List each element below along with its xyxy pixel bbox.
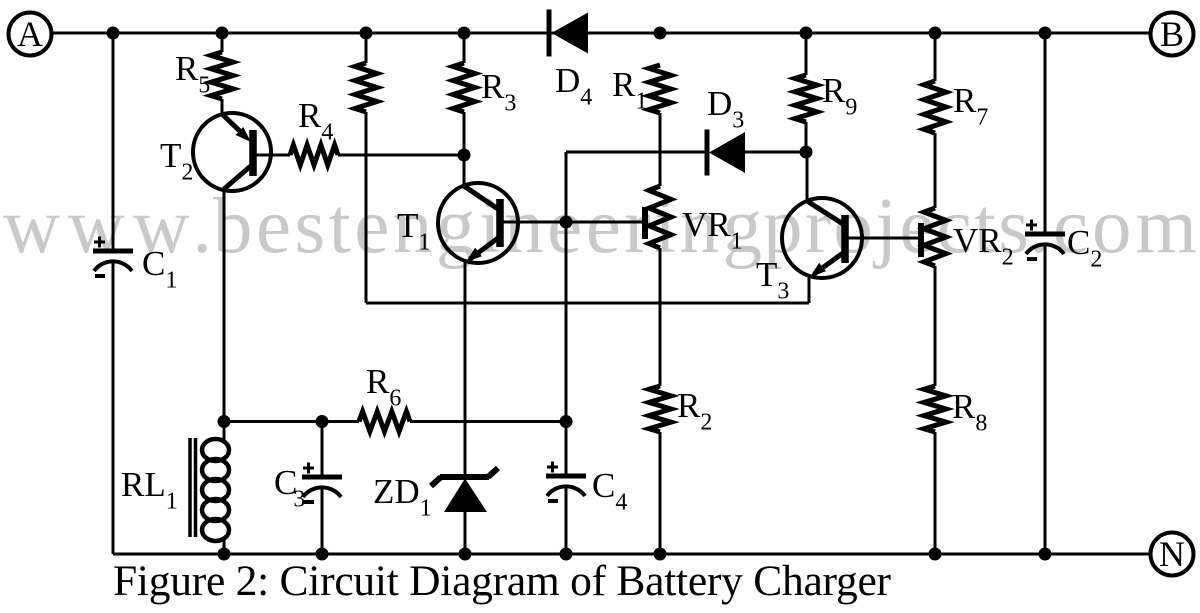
node: bottom rail / R2 <box>654 548 667 561</box>
svg-text:Figure 2: Circuit Diagram of B: Figure 2: Circuit Diagram of Battery Cha… <box>113 557 892 605</box>
resistor R3 <box>453 63 475 112</box>
wire: RL1 node to C3 node <box>224 420 359 423</box>
capacitor C1 <box>93 237 133 277</box>
caption <box>113 557 892 605</box>
label VR2 <box>953 221 1014 271</box>
resistor R2 <box>649 386 671 432</box>
label D4 <box>555 61 592 111</box>
label R3 <box>481 67 516 117</box>
node: D3 / R9 / T3 collector <box>800 146 813 159</box>
label VR1 <box>682 205 743 255</box>
label T2 <box>160 136 193 186</box>
transistor T3 <box>782 198 862 278</box>
label C4 <box>592 466 627 516</box>
label C2 <box>1067 223 1102 273</box>
wire: top rail to R9 <box>805 33 808 75</box>
label D3 <box>707 84 744 134</box>
terminal B <box>1151 13 1194 56</box>
node: bottom rail / RL1 <box>218 548 231 561</box>
wire: T1 base node up-right to D3 <box>566 152 707 222</box>
wire: T3 base to VR2 wiper <box>845 237 921 240</box>
resistor R4 <box>290 145 338 165</box>
node: top rail / feedback resistor <box>360 27 373 40</box>
label R6 <box>366 362 401 412</box>
resistor R1 <box>649 65 671 113</box>
node: top rail / R7 <box>929 27 942 40</box>
node: top rail / R5 <box>216 27 229 40</box>
transistor T2 <box>193 113 271 191</box>
diode D3 <box>707 130 745 176</box>
wire: R6 to C4 node <box>410 420 566 423</box>
node: R3 / R4 / T1 collector <box>458 149 471 162</box>
label R2 <box>677 386 712 436</box>
label R8 <box>952 387 987 437</box>
wire: R2 to bottom rail <box>659 432 662 554</box>
wire: top rail to feedback resistor <box>365 33 368 63</box>
watermark <box>3 183 1197 270</box>
node: C3 / R6 <box>316 415 329 428</box>
capacitor C3 <box>302 463 342 503</box>
wire: top rail to C2 <box>1044 33 1047 234</box>
wire: top supply rail from terminal A to terminal B <box>52 32 1151 35</box>
terminal N <box>1151 533 1194 576</box>
node: T1 base / VR1 wiper / C4 branch <box>560 216 573 229</box>
node: top rail / C1 <box>107 27 120 40</box>
wire: C3 to bottom rail <box>321 488 324 554</box>
wire: R7 to VR2 <box>934 133 937 208</box>
wire: T2 base to R4 <box>253 154 290 157</box>
wire: R5 to T2 emitter <box>221 99 224 114</box>
node: bottom rail / ZD1 <box>459 548 472 561</box>
svg-text:N: N <box>1159 534 1185 574</box>
wire: top rail to R5 <box>221 33 224 52</box>
wire: VR2 to R8 <box>934 266 937 386</box>
svg-text:www.: www. <box>3 183 212 270</box>
wire: ZD1 to bottom rail <box>464 512 467 554</box>
wire: R6 node to C4 plate <box>565 422 568 477</box>
wire: R4 to node R3/T1 <box>338 154 462 157</box>
node: bottom rail / C2 <box>1039 548 1052 561</box>
label C3 <box>274 463 305 513</box>
wire: D3 anode to R9/T3 node <box>745 151 806 154</box>
resistor (unlabeled, feedback) <box>355 63 377 112</box>
wire: top rail to R3 <box>463 33 466 63</box>
wire: T2 collector to RL1 <box>223 188 226 422</box>
wire: node to T3 collector <box>806 152 809 201</box>
wire: left vertical rail (C1 branch) <box>112 33 115 554</box>
label RL1 <box>121 465 178 515</box>
wire: C2 to bottom rail <box>1044 245 1047 554</box>
wire: VR1 to R2 <box>659 248 662 386</box>
wire: top rail to R7 <box>934 33 937 81</box>
label T3 <box>756 255 789 305</box>
label R9 <box>822 71 857 121</box>
transistor T1 <box>438 183 518 263</box>
wire: T1 base to VR1 wiper <box>500 221 645 224</box>
node: top rail / R1 <box>654 27 667 40</box>
wire: R9 to D3 node <box>805 122 808 152</box>
resistor R7 <box>924 81 946 133</box>
label R4 <box>298 96 333 146</box>
label ZD1 <box>373 472 432 522</box>
label R5 <box>175 49 210 99</box>
capacitor C4 <box>546 462 586 502</box>
wire: T3 emitter down <box>808 276 811 303</box>
variable resistor VR2 <box>921 208 946 266</box>
node: bottom rail / R8 <box>929 548 942 561</box>
wire: T1 emitter down to ZD1 <box>464 261 467 477</box>
resistor R8 <box>924 386 946 432</box>
wire: bottom rail to terminal N <box>113 553 1151 556</box>
wire: node to T1 collector <box>463 155 466 186</box>
label R1 <box>612 65 647 115</box>
zener diode ZD1 <box>431 468 498 512</box>
wire: R6 node to C3 <box>321 422 324 478</box>
node: top rail / R3 <box>458 27 471 40</box>
resistor R5 <box>211 52 233 99</box>
svg-text:.com: .com <box>1029 183 1197 270</box>
resistor R6 <box>359 412 410 432</box>
wire: feedback resistor down to emitter bus <box>365 112 368 303</box>
relay coil RL1 <box>190 422 229 555</box>
svg-text:B: B <box>1160 14 1184 54</box>
label R7 <box>953 81 988 131</box>
wire: node down to C4 <box>565 222 568 476</box>
resistor R9 <box>795 75 817 122</box>
wire: R8 to bottom rail <box>934 432 937 554</box>
svg-text:A: A <box>17 14 43 54</box>
wire: emitter bus to feedback resistor <box>366 302 809 305</box>
node: top rail / R9 <box>800 27 813 40</box>
label T1 <box>397 206 430 256</box>
terminal A <box>9 13 52 56</box>
svg-text:bestengineering: bestengineering <box>213 183 762 270</box>
wire: R1 to VR1 <box>659 113 662 186</box>
variable resistor VR1 <box>645 186 671 248</box>
node: bottom rail / C3 <box>316 548 329 561</box>
label C1 <box>142 244 177 294</box>
diode D4 <box>549 10 588 57</box>
wire: R3 to T1 collector node <box>463 112 466 155</box>
node: bottom rail / C4 <box>560 548 573 561</box>
node: top rail / C2 <box>1039 27 1052 40</box>
wire: C4 to bottom rail <box>565 487 568 554</box>
node: R6 / C4 / T1-base branch <box>560 415 573 428</box>
capacitor C2 <box>1025 220 1065 260</box>
node: RL1 / R6 <box>218 415 231 428</box>
